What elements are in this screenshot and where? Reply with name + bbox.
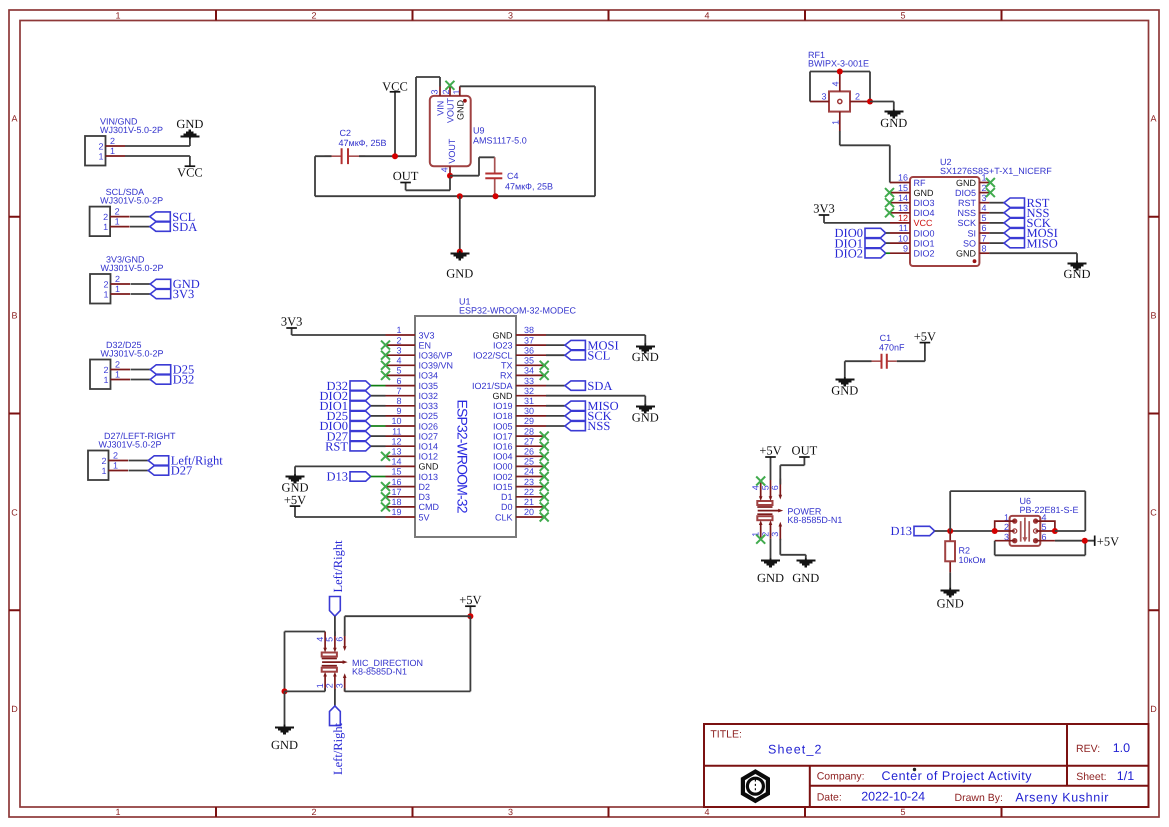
svg-text:1: 1 [982, 173, 987, 183]
wire pin1 to D32 [131, 379, 151, 381]
U1 pin 18 [386, 506, 416, 508]
svg-text:47мкФ, 25В: 47мкФ, 25В [505, 181, 553, 191]
svg-text:GND: GND [446, 266, 473, 280]
junction GND stub bottom [457, 249, 463, 255]
junction D13/R2 [947, 528, 953, 534]
net port NSS (U2) [989, 206, 1049, 220]
net port DIO0 (U2) [835, 226, 890, 240]
wire D13 to U6 pin2 [935, 530, 995, 532]
svg-text:37: 37 [524, 335, 534, 345]
svg-text:31: 31 [524, 396, 534, 406]
svg-text:IO39/VN: IO39/VN [419, 361, 454, 371]
svg-text:2: 2 [982, 183, 987, 193]
svg-text:1: 1 [98, 151, 103, 161]
svg-text:IO35: IO35 [419, 381, 439, 391]
power +5V (U1 pin19) [284, 493, 386, 517]
net port D32 [150, 373, 194, 387]
wire U1 pin32 to GND [546, 396, 645, 406]
mcu U1 ESP32-WROOM-32-MODEC [386, 297, 577, 538]
capacitor C2 [325, 128, 387, 164]
power +5V (C1) [897, 329, 936, 361]
resistor R2 [945, 531, 985, 572]
net port DIO2 (U2) [835, 246, 890, 260]
svg-text:2: 2 [325, 683, 335, 688]
U6 pins 4-5 bracket [1036, 521, 1055, 531]
wire U1 pin14 to GND [295, 466, 386, 476]
svg-text:DIO2: DIO2 [914, 249, 935, 259]
no-connect X U1 pin 27 [540, 442, 549, 451]
svg-text:C: C [11, 508, 18, 518]
svg-text:17: 17 [391, 487, 401, 497]
svg-text:2: 2 [311, 807, 316, 817]
U2 pin 5 [979, 222, 989, 224]
svg-text:RST: RST [958, 198, 977, 208]
svg-text:+5V: +5V [914, 329, 936, 343]
svg-text:IO21/SDA: IO21/SDA [472, 381, 513, 391]
U1 pin 16 [386, 486, 416, 488]
net port DIO1 (U2) [835, 236, 890, 250]
U2 pin 12 [890, 222, 910, 224]
net port SCL [150, 210, 195, 224]
svg-text:3V3: 3V3 [173, 287, 195, 301]
wire U9 bottom rail [315, 195, 595, 197]
svg-text:NSS: NSS [587, 419, 610, 433]
svg-text:GND: GND [456, 100, 466, 121]
svg-text:IO25: IO25 [419, 411, 439, 421]
svg-text:CMD: CMD [419, 502, 440, 512]
wire bottom bracket U6 pin3 to +5V node [995, 541, 1086, 556]
svg-text:WJ301V-5.0-2P: WJ301V-5.0-2P [100, 125, 163, 135]
svg-text:18: 18 [391, 497, 401, 507]
no-connect X U1 pin 2 [381, 341, 390, 350]
net port D13 (U1 pin 15) [326, 470, 385, 484]
net port SCK (U2) [989, 216, 1050, 230]
svg-text:4: 4 [315, 637, 325, 642]
no-connect X U1 pin 5 [381, 371, 390, 380]
ground GND (U2) [1063, 261, 1090, 282]
U1 pin 17 [386, 496, 416, 498]
svg-text:4: 4 [440, 167, 450, 172]
frame row letters right [1150, 114, 1157, 715]
svg-text:1: 1 [115, 284, 120, 294]
svg-text:36: 36 [524, 345, 534, 355]
net port DIO1 (U1 pin 8) [320, 399, 386, 413]
svg-text:3: 3 [821, 92, 826, 102]
svg-text:C4: C4 [507, 171, 519, 181]
svg-text:6: 6 [982, 223, 987, 233]
net port D27 [148, 464, 192, 478]
svg-text:RF: RF [914, 178, 926, 188]
svg-text:DIO1: DIO1 [914, 238, 935, 248]
power 3V3 (U1) [281, 315, 386, 335]
svg-text:D1: D1 [501, 492, 513, 502]
svg-text:IO27: IO27 [419, 431, 439, 441]
no-connect X POWER pin4 [756, 477, 765, 486]
net port D27 (U1 pin 11) [326, 429, 385, 443]
svg-text:1: 1 [396, 325, 401, 335]
ground GND (R2) [937, 588, 964, 611]
power 3V3 (U2) [813, 202, 890, 223]
wire pin2 to SCL [130, 216, 150, 218]
wire RF1 pin2 to GND [870, 102, 894, 112]
svg-text:IO22/SCL: IO22/SCL [473, 351, 513, 361]
U1 pin 2 [386, 344, 416, 346]
net port RST (U1 pin 12) [325, 439, 385, 453]
svg-text:+5V: +5V [459, 593, 481, 607]
svg-text:4: 4 [396, 356, 401, 366]
wire top loop D13 to U6 pins4-5 [950, 491, 1085, 531]
wire pin1 to 3V3 port [131, 293, 151, 295]
no-connect X U2 pin 14 [885, 198, 894, 207]
svg-text:CLK: CLK [495, 512, 513, 522]
svg-text:WJ301V-5.0-2P: WJ301V-5.0-2P [101, 263, 164, 273]
svg-text:21: 21 [524, 497, 534, 507]
svg-text:1: 1 [115, 370, 120, 380]
U1 pin 28 [516, 435, 546, 437]
wire GND stub (U9) [459, 196, 461, 251]
ground GND (MIC) [271, 725, 298, 753]
svg-text:RST: RST [325, 439, 348, 453]
svg-text:3: 3 [508, 807, 513, 817]
wire pin1 to D27 [129, 470, 149, 472]
U1 pin 36 [516, 354, 546, 356]
U1 pin 8 [386, 405, 416, 407]
svg-text:MISO: MISO [1027, 236, 1058, 250]
power +5V (POWER sw) [759, 444, 781, 480]
svg-text:15: 15 [898, 183, 908, 193]
U1 pin 19 [386, 516, 416, 518]
svg-text:23: 23 [524, 477, 534, 487]
svg-text:IO26: IO26 [419, 421, 439, 431]
no-connect X U1 pin 18 [381, 502, 390, 511]
svg-text:U9: U9 [473, 126, 485, 136]
title block border [704, 724, 1149, 807]
svg-text:VCC: VCC [177, 166, 203, 180]
wire pin4 node to C4 top [450, 157, 495, 175]
junction U6 pin4-5 [1052, 528, 1058, 534]
no-connect X U1 pin 24 [540, 472, 549, 481]
frame row letters left [11, 114, 18, 715]
ground GND (inverted) [176, 117, 203, 146]
U1 pin 26 [516, 455, 546, 457]
switch MIC_DIRECTION K8-8585D-N1 [315, 630, 423, 692]
wire pin1 to SDA [130, 226, 150, 228]
power +5V (U6) [1095, 535, 1119, 549]
U1 pin 35 [516, 364, 546, 366]
svg-text:OUT: OUT [393, 169, 419, 183]
junction RF1 top [837, 69, 843, 75]
frame column numbers top [115, 11, 905, 21]
svg-text:ESP32-WROOM-32-MODEC: ESP32-WROOM-32-MODEC [459, 306, 577, 316]
no-connect X U1 pin 35 [540, 361, 549, 370]
U2 pin 3 [979, 202, 989, 204]
svg-text:8: 8 [396, 396, 401, 406]
U1 pin 7 [386, 395, 416, 397]
svg-text:C1: C1 [880, 333, 892, 343]
svg-text:Arseny Kushnir: Arseny Kushnir [1015, 791, 1108, 805]
svg-text:GND: GND [792, 571, 819, 585]
wire C2 left to bottom loop [315, 156, 332, 196]
connector D32/D25 [90, 340, 164, 389]
svg-text:7: 7 [396, 386, 401, 396]
svg-text:3: 3 [396, 345, 401, 355]
svg-text:VOUT: VOUT [446, 97, 456, 123]
no-connect X U2 pin 2 [986, 188, 995, 197]
svg-text:2: 2 [311, 11, 316, 21]
svg-text:D13: D13 [326, 470, 348, 484]
U2 pin 14 [890, 202, 910, 204]
U2 pin 6 [979, 232, 989, 234]
U1 pin 3 [386, 354, 416, 356]
connector SCL/SDA [90, 187, 164, 236]
wire +5V to MIC pin6 [345, 616, 471, 636]
net port RST (U2) [989, 196, 1049, 210]
U2 pin 13 [890, 212, 910, 214]
U1 pin 24 [516, 476, 546, 478]
U1 pin 6 [386, 385, 416, 387]
junction bottom rail / C4 [493, 193, 499, 199]
wire pin2 to D25 [131, 369, 151, 371]
wire pin1 to VCC [125, 155, 190, 157]
net port D25 (U1 pin 9) [326, 409, 385, 423]
svg-text:10: 10 [898, 233, 908, 243]
net port D13 (U6) [890, 524, 934, 538]
svg-text:1: 1 [115, 807, 120, 817]
RF1 pin 1 [839, 112, 841, 132]
no-connect X U1 pin 34 [540, 371, 549, 380]
U1 pin 31 [516, 405, 546, 407]
svg-text:+5V: +5V [759, 444, 781, 458]
U1 pin 33 [516, 385, 546, 387]
net port Left/Right [148, 454, 223, 468]
net port SDA [150, 220, 198, 234]
no-connect X U2 pin 13 [885, 208, 894, 217]
svg-text:2: 2 [113, 451, 118, 461]
U1 pin 12 [386, 445, 416, 447]
no-connect X U1 pin 3 [381, 351, 390, 360]
svg-text:WJ301V-5.0-2P: WJ301V-5.0-2P [100, 196, 163, 206]
svg-text:28: 28 [524, 426, 534, 436]
U1 pin 38 [516, 334, 546, 336]
svg-text:9: 9 [396, 406, 401, 416]
svg-text:5: 5 [760, 485, 770, 490]
svg-text:IO17: IO17 [493, 431, 513, 441]
U1 pin 23 [516, 486, 546, 488]
junction RF1 pin2 [867, 99, 873, 105]
connector D27/LEFT-RIGHT [88, 431, 176, 480]
svg-text:Drawn By:: Drawn By: [955, 792, 1003, 804]
U9 pin 1 [459, 86, 461, 96]
antenna RF1 BWIPX-3-001E [808, 50, 870, 131]
svg-text:22: 22 [524, 487, 534, 497]
junction VCC/C2 [392, 153, 398, 159]
svg-text:1: 1 [315, 683, 325, 688]
svg-text:2: 2 [103, 365, 108, 375]
svg-text:5V: 5V [419, 512, 430, 522]
svg-text:8: 8 [982, 243, 987, 253]
no-connect X POWER pin1 [756, 535, 765, 544]
svg-text:1: 1 [103, 375, 108, 385]
svg-text:VCC: VCC [914, 218, 934, 228]
svg-text:DIO0: DIO0 [914, 228, 935, 238]
svg-text:2: 2 [110, 136, 115, 146]
svg-text:14: 14 [898, 193, 908, 203]
U1 pin 32 [516, 395, 546, 397]
U1 pin 1 [386, 334, 416, 336]
power OUT [393, 169, 450, 190]
svg-text:IO14: IO14 [419, 442, 439, 452]
wire RF1 pin3 loop to top [810, 72, 840, 102]
U2 pin 4 [979, 212, 989, 214]
svg-text:1: 1 [103, 289, 108, 299]
ground GND (C1) [831, 377, 858, 398]
wire RF1 top to pin4 [840, 71, 870, 73]
svg-text:NSS: NSS [957, 208, 976, 218]
svg-text:12: 12 [898, 213, 908, 223]
wire MIC pin2 to bottom flag [334, 689, 336, 706]
U1 pin 34 [516, 374, 546, 376]
svg-text:GND: GND [937, 596, 964, 610]
U2 pin 2 [979, 192, 989, 194]
net port SCL (U1 pin 36) [546, 348, 610, 362]
svg-text:19: 19 [391, 507, 401, 517]
svg-text:1: 1 [101, 466, 106, 476]
U1 pin 29 [516, 425, 546, 427]
svg-text:IO36/VP: IO36/VP [419, 351, 453, 361]
svg-text:1.0: 1.0 [1113, 741, 1130, 755]
wire C1 left to GND [845, 361, 872, 379]
U2 pin 9 [890, 252, 910, 254]
U1 pin 27 [516, 445, 546, 447]
svg-text:GND: GND [419, 462, 440, 472]
svg-text:IO33: IO33 [419, 401, 439, 411]
wire U2 pin8 to GND [989, 253, 1077, 263]
ground GND (RF1) [880, 109, 907, 129]
junction U6 pin6/+5V [1082, 538, 1088, 544]
wire RF1 pin1 to U2 RF [840, 131, 890, 183]
svg-text:3: 3 [508, 11, 513, 21]
no-connect X U1 pin 17 [381, 492, 390, 501]
net port SCK (U1 pin 30) [546, 409, 612, 423]
U1 pin 15 [386, 476, 416, 478]
U1 pin 30 [516, 415, 546, 417]
no-connect X U2 pin 1 [986, 178, 995, 187]
U1 pin 13 [386, 455, 416, 457]
net port SDA (U1 pin 33) [546, 379, 612, 393]
svg-text:WJ301V-5.0-2P: WJ301V-5.0-2P [101, 349, 164, 359]
U1 pin 4 [386, 364, 416, 366]
wire C2 right to VCC node [359, 155, 395, 157]
U6 pins 1-2 bracket [995, 521, 1015, 531]
svg-text:16: 16 [898, 173, 908, 183]
svg-text:Sheet:: Sheet: [1076, 771, 1106, 783]
svg-text:IO34: IO34 [419, 371, 439, 381]
svg-text:K8-8585D-N1: K8-8585D-N1 [352, 667, 407, 677]
no-connect X U1 pin 28 [540, 432, 549, 441]
op U9 body [429, 85, 526, 176]
U1 pin 22 [516, 496, 546, 498]
svg-text:2: 2 [103, 279, 108, 289]
U1 pin 11 [386, 435, 416, 437]
net port MISO (U2) [989, 236, 1057, 250]
svg-text:SI: SI [967, 228, 976, 238]
svg-text:2: 2 [115, 207, 120, 217]
svg-text:DIO2: DIO2 [835, 246, 863, 260]
svg-text:47мкФ, 25В: 47мкФ, 25В [339, 138, 387, 148]
wire U1 pin38 to GND [546, 335, 645, 345]
svg-text:30: 30 [524, 406, 534, 416]
RF1 pin 4 [839, 72, 841, 92]
wire left node to GND [284, 691, 286, 727]
svg-text:Center of Project Activity: Center of Project Activity [882, 769, 1033, 783]
svg-text:11: 11 [392, 426, 401, 436]
power +5V (MIC) [459, 593, 481, 616]
U2 pin 10 [890, 242, 910, 244]
svg-text:33: 33 [524, 376, 534, 386]
svg-text:3: 3 [982, 193, 987, 203]
svg-text:VCC: VCC [382, 80, 408, 94]
svg-text:IO16: IO16 [493, 442, 513, 452]
svg-text:2: 2 [115, 274, 120, 284]
switch POWER K8-8585D-N1 [751, 479, 843, 541]
svg-text:3V3: 3V3 [281, 315, 303, 329]
svg-text:R2: R2 [959, 546, 971, 556]
U1 pin 25 [516, 465, 546, 467]
svg-text:A: A [11, 114, 17, 124]
svg-text:IO05: IO05 [493, 421, 513, 431]
svg-text:1: 1 [113, 461, 118, 471]
svg-text:16: 16 [391, 477, 401, 487]
wire POWER pin3 to GND [780, 539, 806, 561]
svg-text:SDA: SDA [172, 220, 197, 234]
power VCC [177, 156, 203, 180]
svg-text:6: 6 [335, 637, 345, 642]
svg-text:13: 13 [391, 447, 401, 457]
frame right ticks [1149, 217, 1160, 611]
U6 pin 3 [995, 540, 1015, 542]
svg-text:5: 5 [982, 213, 987, 223]
ground GND (U1 pin38) [632, 344, 659, 365]
svg-text:IO13: IO13 [419, 472, 439, 482]
frame bottom ticks [216, 807, 1002, 817]
svg-text:ESP32-WROOM-32: ESP32-WROOM-32 [455, 400, 471, 514]
capacitor C1 [872, 333, 906, 369]
svg-text:34: 34 [524, 366, 534, 376]
U1 pin 10 [386, 425, 416, 427]
svg-text:A: A [1150, 114, 1156, 124]
svg-text:10: 10 [391, 416, 401, 426]
svg-text:2: 2 [115, 360, 120, 370]
svg-text:20: 20 [524, 507, 534, 517]
U9 pin 4 [449, 166, 451, 175]
frame top ticks [216, 10, 1002, 21]
connector 3V3/GND [90, 255, 164, 304]
svg-text:11: 11 [899, 223, 908, 233]
svg-text:SX1276S8S+T-X1_NICERF: SX1276S8S+T-X1_NICERF [940, 166, 1052, 176]
svg-text:32: 32 [524, 386, 534, 396]
svg-text:IO32: IO32 [419, 391, 439, 401]
svg-text:6: 6 [396, 376, 401, 386]
svg-text:26: 26 [524, 447, 534, 457]
svg-text:+5V: +5V [1097, 535, 1119, 549]
svg-text:3: 3 [770, 532, 780, 537]
wire R2 to GND [949, 572, 951, 590]
no-connect X U1 pin 4 [381, 361, 390, 370]
frame left ticks [9, 217, 20, 611]
svg-text:Left/Right: Left/Right [331, 540, 345, 593]
svg-text:GND: GND [632, 411, 659, 425]
svg-text:+5V: +5V [284, 493, 306, 507]
